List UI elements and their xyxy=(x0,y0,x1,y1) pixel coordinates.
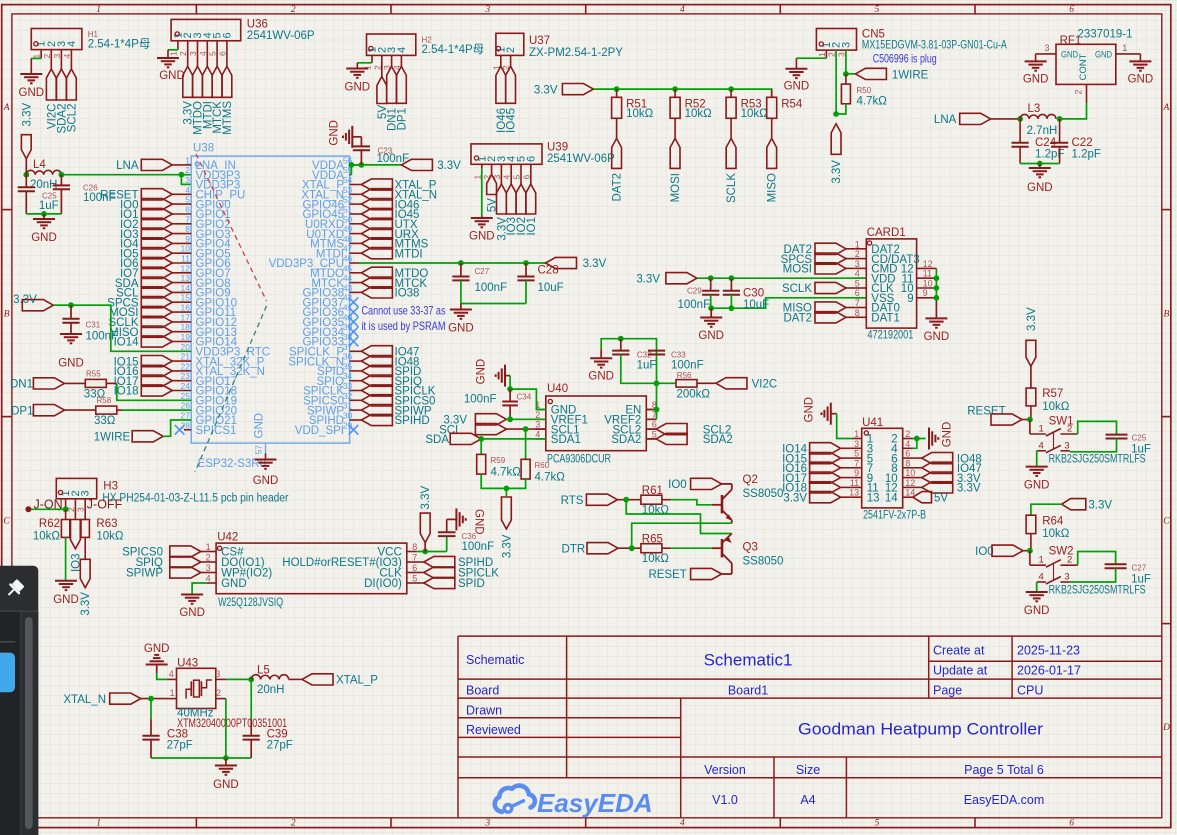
IC U42 W25Q128JVSIQ xyxy=(216,543,407,594)
svg-text:4: 4 xyxy=(855,269,860,279)
svg-text:EasyEDA.com: EasyEDA.com xyxy=(964,793,1045,807)
svg-text:3: 3 xyxy=(840,42,852,48)
ground GND at SW2 xyxy=(1026,592,1048,601)
svg-text:10kΩ: 10kΩ xyxy=(642,553,670,565)
net flag MOSI below R52 xyxy=(670,138,680,168)
svg-text:1: 1 xyxy=(96,5,101,15)
svg-text:C25: C25 xyxy=(1132,434,1147,443)
svg-text:25: 25 xyxy=(181,391,191,401)
svg-text:HX PH254-01-03-Z-L11.5 pcb pin: HX PH254-01-03-Z-L11.5 pcb pin header xyxy=(102,493,288,505)
pin icon on panel xyxy=(3,578,25,600)
svg-text:DTR: DTR xyxy=(562,543,586,555)
svg-text:2026-01-17: 2026-01-17 xyxy=(1017,664,1081,678)
wire CN5 pin1 to GND xyxy=(796,57,826,59)
svg-text:2: 2 xyxy=(185,165,190,175)
svg-text:GND: GND xyxy=(1027,182,1053,194)
svg-text:2: 2 xyxy=(206,553,211,563)
svg-text:Schematic1: Schematic1 xyxy=(704,651,793,670)
svg-text:5V: 5V xyxy=(934,492,948,504)
net flag IO3 below H3 pin2 xyxy=(71,520,81,549)
svg-text:45: 45 xyxy=(343,263,353,273)
ground GND below C29 xyxy=(710,308,712,317)
svg-text:C: C xyxy=(1163,516,1170,526)
net flag SPIQ at U38 pin 34 xyxy=(350,380,362,382)
svg-text:1uF: 1uF xyxy=(39,200,59,212)
ground GND at U36 xyxy=(157,58,179,67)
wire CARD1 shield pins to GND xyxy=(935,268,937,297)
net flag 3.3V at U41 right xyxy=(913,486,922,488)
svg-text:11: 11 xyxy=(181,254,190,264)
svg-text:Create at: Create at xyxy=(933,644,985,658)
svg-text:GND: GND xyxy=(53,594,79,606)
svg-text:7: 7 xyxy=(412,553,417,563)
svg-text:2: 2 xyxy=(505,47,517,53)
inductor L5 xyxy=(251,675,288,680)
svg-text:4.7kΩ: 4.7kΩ xyxy=(857,96,888,108)
svg-text:C27: C27 xyxy=(1132,564,1147,573)
net flag SCLK below R53 xyxy=(726,138,736,168)
svg-text:3: 3 xyxy=(188,51,198,56)
junction dot R59 top xyxy=(478,436,484,442)
ground GND rotated at C36 xyxy=(456,508,465,530)
svg-text:GND: GND xyxy=(253,475,279,487)
svg-text:3.3V: 3.3V xyxy=(636,273,660,285)
X mark U38 pin 41 xyxy=(349,307,359,317)
svg-text:100nF: 100nF xyxy=(678,299,711,311)
resistor R51 xyxy=(616,89,618,97)
svg-text:4.7kΩ: 4.7kΩ xyxy=(491,467,522,479)
junction dot L4 left xyxy=(23,172,29,178)
capacitor C30 xyxy=(730,278,732,291)
svg-text:C33: C33 xyxy=(671,351,686,360)
junction dot pullup rail xyxy=(504,486,510,492)
wire R61 to Q2 base xyxy=(671,500,712,505)
svg-text:U38: U38 xyxy=(193,143,214,155)
junction dot L5 node xyxy=(248,677,254,683)
svg-text:Board: Board xyxy=(466,684,499,698)
svg-text:1: 1 xyxy=(185,155,190,165)
net flag 1WIRE at CN5 xyxy=(846,73,856,75)
svg-text:2541WV-06P: 2541WV-06P xyxy=(247,30,315,42)
capacitor C32 xyxy=(620,339,622,351)
svg-text:3.3V: 3.3V xyxy=(534,85,558,97)
svg-text:Cannot use 33-37 as: Cannot use 33-37 as xyxy=(362,304,446,318)
svg-text:MISO: MISO xyxy=(767,173,779,202)
svg-text:10kΩ: 10kΩ xyxy=(626,108,654,120)
svg-text:4: 4 xyxy=(169,669,174,679)
svg-text:CARD1: CARD1 xyxy=(867,227,906,239)
svg-text:57: 57 xyxy=(254,445,264,455)
capacitor C38 xyxy=(150,699,152,720)
power flag 3.3V at R64 xyxy=(1062,499,1086,510)
svg-text:27pF: 27pF xyxy=(267,740,293,752)
svg-text:35: 35 xyxy=(343,361,353,371)
svg-text:6: 6 xyxy=(185,205,190,215)
wire C27 C28 gnd rail xyxy=(461,303,526,305)
wire VDD3P3 pins2-3 xyxy=(181,175,191,185)
net flag SPICLK at U42 right xyxy=(417,572,424,574)
svg-text:LNA: LNA xyxy=(934,114,957,126)
svg-text:3.3V: 3.3V xyxy=(957,483,981,495)
net flag SPID at U42 right xyxy=(417,582,424,584)
svg-text:1: 1 xyxy=(168,51,178,56)
svg-text:ZX-PM2.54-1-2PY: ZX-PM2.54-1-2PY xyxy=(529,47,623,59)
capacitor C22 xyxy=(1059,119,1061,143)
svg-text:Update at: Update at xyxy=(933,664,988,678)
svg-text:DN1: DN1 xyxy=(10,379,33,391)
junction dot 1WIRE node xyxy=(843,71,849,77)
svg-text:3: 3 xyxy=(854,439,859,449)
X mark U38 pin 39 xyxy=(349,327,359,337)
svg-text:3.3V: 3.3V xyxy=(420,486,432,510)
wire 3.3V to VREF1 xyxy=(506,418,545,420)
EasyEDA logo xyxy=(495,786,535,813)
wire VDDA pins xyxy=(350,164,362,166)
svg-text:11: 11 xyxy=(850,478,859,488)
svg-text:SCLK: SCLK xyxy=(782,283,812,295)
svg-text:GND: GND xyxy=(448,323,474,335)
svg-text:XTAL_N: XTAL_N xyxy=(63,694,106,706)
svg-text:5: 5 xyxy=(185,195,190,205)
svg-text:IO45: IO45 xyxy=(506,108,518,133)
junction dot at U38 pin2 xyxy=(179,172,185,178)
wire CN5 pin2 to 3.3V xyxy=(835,50,837,114)
svg-text:1uF: 1uF xyxy=(1131,444,1151,456)
svg-text:SS8050: SS8050 xyxy=(743,556,784,568)
svg-text:GND: GND xyxy=(329,120,341,146)
power flag 3.3V at VDDA xyxy=(401,159,432,170)
svg-text:C34: C34 xyxy=(517,393,532,402)
power flag 3.3V below CN5 xyxy=(831,124,841,155)
ground GND rotated at C23 xyxy=(343,126,352,148)
svg-text:5: 5 xyxy=(875,5,880,15)
svg-text:U40: U40 xyxy=(547,383,568,395)
wire SW1 pin2 to C25 xyxy=(1078,421,1117,434)
ground GND at RF1 pin1 xyxy=(1129,61,1151,70)
svg-text:17: 17 xyxy=(181,312,191,322)
wire crystal gnd rail xyxy=(151,757,251,759)
wire RF1 pin3 to GND xyxy=(1036,53,1056,55)
connector H2 2.54-1*4P header xyxy=(367,34,416,55)
junction dot L3 right xyxy=(1057,116,1063,122)
wire U36 pin1 to GND xyxy=(168,49,178,51)
wire R65 to Q3 base xyxy=(671,547,712,549)
svg-text:SCLK: SCLK xyxy=(726,173,738,203)
svg-text:Reviewed: Reviewed xyxy=(466,723,521,737)
svg-text:SW1: SW1 xyxy=(1049,416,1074,428)
net flag MTDI at U38 pin 47 xyxy=(350,252,362,254)
net flag IO48 at U38 pin 36 xyxy=(350,360,362,362)
svg-text:GND: GND xyxy=(469,231,495,243)
capacitor C34 xyxy=(509,389,511,401)
svg-text:2: 2 xyxy=(42,54,52,59)
junction dot C34 top xyxy=(507,386,513,392)
resistor R58 xyxy=(64,409,95,411)
wire R55 to GPIO19 xyxy=(117,383,191,400)
net flag MTMS at U38 pin 48 xyxy=(350,242,362,244)
power flag 3.3V below R63 xyxy=(80,559,90,587)
svg-text:4: 4 xyxy=(62,54,72,59)
wire caps gnd rail xyxy=(711,307,732,309)
svg-text:100nF: 100nF xyxy=(86,331,119,343)
net flag SPID at U38 pin 35 xyxy=(350,370,362,372)
svg-text:1uF: 1uF xyxy=(637,360,657,372)
svg-text:1WIRE: 1WIRE xyxy=(94,432,131,444)
IC U40 PCA9306DCUR xyxy=(546,396,647,451)
wire H1 pin1 to GND xyxy=(31,57,41,59)
svg-text:SDA2: SDA2 xyxy=(703,434,733,446)
svg-text:Schematic: Schematic xyxy=(466,653,524,667)
svg-text:5: 5 xyxy=(512,175,522,180)
svg-text:2: 2 xyxy=(291,5,296,15)
svg-text:U41: U41 xyxy=(862,417,883,429)
svg-text:C: C xyxy=(3,516,10,526)
svg-text:3: 3 xyxy=(215,669,220,679)
svg-text:10: 10 xyxy=(181,244,191,254)
svg-text:10uF: 10uF xyxy=(743,299,769,311)
resistor R59 xyxy=(480,439,482,455)
ground GND at SW1 xyxy=(1026,467,1048,476)
net flag VI2C at R56 xyxy=(716,378,747,389)
svg-text:472192001: 472192001 xyxy=(867,330,913,342)
resistor R54 xyxy=(771,89,773,97)
transistor Q2 SS8050 xyxy=(721,495,724,513)
junction dots on rail xyxy=(614,86,620,92)
svg-text:1: 1 xyxy=(96,818,101,828)
svg-text:U37: U37 xyxy=(529,35,550,47)
wire 3.3V to R64 xyxy=(1031,504,1062,515)
svg-text:100nF: 100nF xyxy=(671,360,704,372)
svg-text:C27: C27 xyxy=(475,267,490,276)
svg-text:5: 5 xyxy=(854,449,859,459)
svg-text:24: 24 xyxy=(181,381,191,391)
junction dots EN net xyxy=(654,407,660,413)
svg-text:52: 52 xyxy=(343,195,353,205)
svg-text:34: 34 xyxy=(343,371,353,381)
svg-text:2: 2 xyxy=(855,249,860,259)
junction dot crystal gnd xyxy=(223,755,229,761)
ground GND at CARD1 shield xyxy=(925,318,947,327)
svg-text:CONT: CONT xyxy=(1078,53,1089,80)
svg-text:27: 27 xyxy=(181,411,191,421)
net flag SDA2 below H1 xyxy=(57,69,67,100)
junction dots shield xyxy=(934,275,940,281)
switch SW1 RKB2SJG250SMTRLFS xyxy=(1029,420,1031,435)
svg-text:6: 6 xyxy=(521,175,531,180)
svg-text:3.3V: 3.3V xyxy=(583,258,607,270)
wire 1WIRE to GPIO21 xyxy=(163,420,191,436)
U38 pin57 GND xyxy=(265,443,267,453)
svg-text:9: 9 xyxy=(907,293,913,305)
junction dot RESET xyxy=(1027,417,1033,423)
svg-text:EasyEDA: EasyEDA xyxy=(537,788,653,818)
wire U41 pins 2 4 to GND xyxy=(913,438,926,440)
svg-text:13: 13 xyxy=(181,273,191,283)
svg-text:R57: R57 xyxy=(1042,388,1063,400)
ground GND at EN rail xyxy=(600,349,602,358)
svg-text:4: 4 xyxy=(66,41,78,47)
svg-text:SS8050: SS8050 xyxy=(743,488,784,500)
svg-text:RTS: RTS xyxy=(561,495,584,507)
svg-text:IO0: IO0 xyxy=(975,546,994,558)
svg-text:U39: U39 xyxy=(547,142,568,154)
svg-text:SDA2: SDA2 xyxy=(611,434,641,446)
svg-text:51: 51 xyxy=(343,205,353,215)
net flag SCL2 xyxy=(646,428,656,430)
drag guide dashed red xyxy=(196,154,267,301)
wire gnd to U43 pin4 xyxy=(157,673,167,679)
svg-text:3: 3 xyxy=(76,507,86,512)
wire L5 to XTAL_P xyxy=(289,678,302,680)
svg-text:1WIRE: 1WIRE xyxy=(892,69,929,81)
svg-text:2.54-1*4P母: 2.54-1*4P母 xyxy=(422,43,485,56)
net flag 5V below H2 xyxy=(377,77,387,104)
svg-text:5: 5 xyxy=(412,574,417,584)
svg-text:U43: U43 xyxy=(177,657,198,669)
power flag 3.3V below R59 R60 xyxy=(505,488,507,496)
svg-text:31: 31 xyxy=(343,401,353,411)
svg-text:R58: R58 xyxy=(97,396,112,405)
ground GND at H1 xyxy=(20,74,42,83)
svg-text:R64: R64 xyxy=(1042,516,1064,528)
svg-text:Page: Page xyxy=(933,684,962,698)
svg-text:15: 15 xyxy=(181,293,191,303)
connector U37 ZX-PM2.54-1-2PY xyxy=(496,33,524,55)
net flag IO45 below U37 xyxy=(506,66,516,103)
svg-text:GND: GND xyxy=(588,371,614,383)
svg-text:8: 8 xyxy=(855,308,860,318)
svg-text:2: 2 xyxy=(905,429,910,439)
svg-text:22: 22 xyxy=(181,361,191,371)
svg-text:3: 3 xyxy=(836,52,846,57)
resistor R53 xyxy=(730,89,732,97)
svg-text:R62: R62 xyxy=(39,518,60,530)
junction dot antenna gnd xyxy=(1037,161,1043,167)
svg-text:DAT1: DAT1 xyxy=(871,313,900,325)
ground GND rotated at U41 pin1 xyxy=(822,403,831,425)
svg-text:11: 11 xyxy=(923,269,932,279)
wire SCL to SCL1 xyxy=(506,428,545,430)
crystal U43 40MHz xyxy=(177,668,216,708)
svg-text:2: 2 xyxy=(216,688,221,698)
svg-text:1.2pF: 1.2pF xyxy=(1072,149,1101,161)
svg-text:MX15EDGVM-3.81-03P-GN01-Cu-A: MX15EDGVM-3.81-03P-GN01-Cu-A xyxy=(862,40,1007,52)
svg-text:3: 3 xyxy=(855,259,860,269)
svg-text:33Ω: 33Ω xyxy=(94,415,116,427)
ground GND below C31 xyxy=(60,334,82,343)
wire SW1 pin4 to GND xyxy=(1036,451,1038,467)
wire H2 pin1 to GND xyxy=(357,62,372,64)
ground GND below crystal xyxy=(225,758,227,766)
svg-text:B: B xyxy=(4,310,10,320)
junction dot XTAL_N xyxy=(148,696,154,702)
svg-text:46: 46 xyxy=(343,254,353,264)
svg-text:4: 4 xyxy=(905,439,910,449)
svg-text:44: 44 xyxy=(343,273,353,283)
wire SW2 pin2 to C27 xyxy=(1078,552,1116,566)
switch SW2 RKB2SJG250SMTRLFS xyxy=(1029,551,1031,566)
svg-text:10: 10 xyxy=(923,279,933,289)
junction dot C31 xyxy=(68,302,74,308)
svg-text:5: 5 xyxy=(855,279,860,289)
net flag XTAL_P at U38 pin 54 xyxy=(350,184,362,186)
svg-text:Board1: Board1 xyxy=(728,684,768,698)
svg-text:4: 4 xyxy=(1039,572,1044,583)
svg-text:GND: GND xyxy=(58,358,84,370)
svg-text:6: 6 xyxy=(1069,5,1074,15)
svg-text:6: 6 xyxy=(1069,818,1074,828)
svg-text:5: 5 xyxy=(652,429,657,439)
junction dot C34 bottom xyxy=(507,416,513,422)
svg-text:3: 3 xyxy=(80,490,92,496)
svg-text:A4: A4 xyxy=(800,793,815,807)
svg-text:SDA1: SDA1 xyxy=(551,434,581,446)
svg-text:6: 6 xyxy=(525,156,537,162)
junction dot filter gnd xyxy=(41,211,47,217)
svg-text:1: 1 xyxy=(206,542,211,552)
svg-text:R65: R65 xyxy=(642,534,663,546)
svg-text:7: 7 xyxy=(185,214,190,224)
wire RF1 pin2 xyxy=(1086,84,1088,103)
capacitor C25 xyxy=(25,175,27,188)
net flag MTDO at U38 pin 45 xyxy=(350,272,362,274)
svg-text:49: 49 xyxy=(343,224,353,234)
svg-text:14: 14 xyxy=(885,492,898,504)
svg-text:GND: GND xyxy=(803,397,815,423)
X mark U38 pin 40 xyxy=(349,317,359,327)
junction dots CPU rail xyxy=(458,260,464,266)
svg-text:R63: R63 xyxy=(96,518,117,530)
net flag XTAL_P xyxy=(302,674,333,685)
resistor R62 xyxy=(65,509,67,519)
svg-text:GND: GND xyxy=(221,578,247,590)
svg-text:2: 2 xyxy=(178,51,188,56)
svg-text:RKB2SJG250SMTRLFS: RKB2SJG250SMTRLFS xyxy=(1049,585,1146,597)
net flag 3.3V below U36 xyxy=(183,66,193,97)
svg-text:1uF: 1uF xyxy=(1131,574,1151,586)
svg-text:VDD_SPI: VDD_SPI xyxy=(295,425,344,437)
svg-text:SPID: SPID xyxy=(458,578,485,590)
svg-text:6: 6 xyxy=(412,563,417,573)
X mark U38 pin 29 xyxy=(349,425,359,435)
svg-text:4: 4 xyxy=(185,185,190,195)
svg-text:R61: R61 xyxy=(642,485,663,497)
net flag IO47 at U38 pin 37 xyxy=(350,350,362,352)
net flag IO38 at U38 pin 43 xyxy=(350,291,362,293)
svg-text:48: 48 xyxy=(343,234,353,244)
wire LNA to L3 xyxy=(991,118,1020,120)
svg-text:2541WV-06P: 2541WV-06P xyxy=(547,153,615,165)
svg-text:10: 10 xyxy=(905,468,915,478)
capacitor C39 xyxy=(250,719,252,736)
wire RESET node xyxy=(1022,419,1030,421)
svg-text:12: 12 xyxy=(905,478,915,488)
svg-text:V1.0: V1.0 xyxy=(712,793,738,807)
svg-text:H3: H3 xyxy=(103,481,118,493)
net flag SDA2 xyxy=(646,438,656,440)
svg-text:9: 9 xyxy=(923,288,928,298)
svg-text:10kΩ: 10kΩ xyxy=(1042,528,1070,540)
svg-text:13: 13 xyxy=(867,492,880,504)
junction dot U41 gnd xyxy=(914,436,920,442)
svg-text:GND: GND xyxy=(213,779,239,791)
capacitor C31 xyxy=(70,305,72,319)
svg-text:1: 1 xyxy=(1039,424,1044,435)
resistor R50 xyxy=(845,74,847,84)
svg-text:C29: C29 xyxy=(687,287,702,296)
wire U42 GND pin4 xyxy=(192,583,206,595)
svg-text:100nF: 100nF xyxy=(464,394,497,406)
